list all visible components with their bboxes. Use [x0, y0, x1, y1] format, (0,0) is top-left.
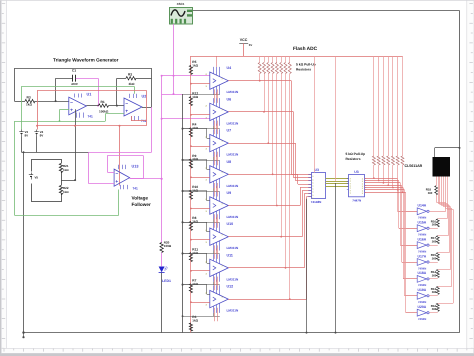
wire U4 ground pins	[183, 94, 220, 96]
svg-text:5V: 5V	[249, 43, 253, 47]
op-amp U1	[69, 97, 87, 115]
ladder tap node 8	[190, 301, 192, 303]
resistor R15 segment	[436, 253, 439, 261]
op-amp U13 voltage follower	[114, 169, 130, 186]
inverter U16A	[417, 242, 426, 249]
svg-text:U15A: U15A	[418, 221, 427, 225]
svg-text:5 kΩ Pull-Up: 5 kΩ Pull-Up	[346, 152, 366, 156]
wire U13 feedback loop	[130, 178, 144, 180]
wire VCC drop	[243, 43, 245, 56]
wire 7447 ground	[335, 183, 337, 333]
junction red-V4	[36, 125, 38, 127]
svg-text:360: 360	[432, 307, 437, 311]
wire green U13 ground	[118, 190, 120, 216]
svg-text:7447N: 7447N	[352, 198, 361, 202]
wire C1 left leg	[55, 78, 57, 101]
box V5 divider	[32, 160, 62, 202]
svg-text:U14A: U14A	[418, 204, 427, 208]
wire U9 minus input from bus	[183, 190, 207, 192]
svg-text:U1: U1	[87, 93, 92, 97]
wire TWG top feedback	[14, 68, 151, 70]
resistor R18 segment	[435, 186, 438, 195]
wire U8 ground pins	[183, 191, 220, 193]
svg-text:Follower: Follower	[132, 202, 151, 207]
ladder tap node 5	[190, 208, 192, 210]
svg-text:LM311N: LM311N	[227, 153, 239, 157]
svg-text:U4: U4	[227, 66, 232, 70]
wire U1 output row	[86, 105, 98, 107]
ladder tap node 1	[190, 83, 192, 85]
wire U11 plus input from ladder	[191, 270, 210, 272]
wire C1 right leg to U1 output	[76, 78, 98, 80]
ladder tap node 6	[190, 239, 192, 241]
svg-text:U16A: U16A	[418, 237, 427, 241]
svg-text:U6: U6	[227, 97, 232, 101]
wire U12 minus input from bus	[183, 284, 207, 286]
display CL5611AR	[433, 157, 451, 177]
wire green rail to op-amps	[22, 86, 135, 88]
comparator U8	[210, 166, 229, 183]
svg-text:7404N: 7404N	[418, 300, 426, 304]
wire U7 ground pins	[183, 160, 220, 162]
svg-text:U13: U13	[132, 165, 139, 169]
comparator output wires to encoder	[228, 80, 291, 82]
svg-text:Flash ADC: Flash ADC	[293, 46, 318, 52]
wire TWG left vertical	[14, 68, 16, 101]
svg-text:360: 360	[432, 223, 437, 227]
wire signal link to bus	[162, 94, 183, 96]
resistor R22	[59, 186, 63, 195]
wire U12 plus input from ladder	[191, 302, 210, 304]
junction bottom-left	[22, 331, 24, 333]
svg-text:74148N: 74148N	[311, 200, 322, 204]
svg-text:9V: 9V	[40, 133, 44, 137]
svg-text:Resistors: Resistors	[296, 68, 311, 72]
resistor R3	[25, 99, 35, 102]
svg-text:R1: R1	[101, 100, 105, 104]
svg-text:CL5611AR: CL5611AR	[405, 164, 423, 168]
wire VCC rail	[191, 56, 403, 58]
svg-text:360: 360	[428, 191, 433, 195]
wire source bottoms	[21, 137, 23, 153]
IC U3 74148N priority encoder	[312, 173, 326, 199]
wire segment 6 to display	[429, 295, 437, 297]
wire divider tap	[61, 180, 75, 182]
svg-text:U8: U8	[227, 160, 232, 164]
svg-text:7404N: 7404N	[418, 266, 426, 270]
svg-text:1kΩ: 1kΩ	[192, 95, 198, 99]
resistor R20	[160, 243, 163, 253]
svg-text:U9: U9	[227, 191, 232, 195]
comparator U11	[210, 259, 229, 276]
svg-text:Resistors: Resistors	[346, 157, 361, 161]
ladder tap node 3	[190, 145, 192, 147]
ladder tap node 2	[190, 114, 192, 116]
wire R2 right leg	[136, 78, 152, 80]
inverter U19A	[417, 292, 426, 299]
node R1-R2	[116, 105, 118, 107]
left ruler band	[1, 0, 6, 348]
svg-text:1kΩ: 1kΩ	[63, 190, 69, 194]
svg-text:VCC: VCC	[240, 38, 248, 42]
svg-text:1kΩ: 1kΩ	[63, 168, 69, 172]
comparator U4	[210, 72, 229, 89]
wire green V3 net vertical	[21, 86, 23, 129]
wire green drop to U2 top pin	[134, 86, 136, 94]
wire tap up to red divider row	[75, 109, 77, 180]
svg-text:U3: U3	[354, 170, 358, 174]
comparator U9	[210, 197, 229, 214]
resistor R12 segment	[436, 303, 439, 311]
svg-text:R2: R2	[128, 72, 132, 76]
svg-text:360: 360	[432, 256, 437, 260]
wire U9 ground pins	[183, 222, 220, 224]
bus input distribution vertical	[182, 94, 184, 333]
wire green branch to U1 plus input	[59, 110, 61, 122]
wire scope channel A drop	[173, 24, 175, 94]
wire decoder vcc column	[335, 56, 337, 181]
svg-text:7404N: 7404N	[418, 249, 426, 253]
svg-text:XSC1: XSC1	[177, 2, 185, 6]
svg-text:360: 360	[432, 273, 437, 277]
wire U10 plus input from ladder	[191, 239, 210, 241]
wire left vertical from sources to bottom	[23, 152, 25, 332]
svg-text:360: 360	[432, 290, 437, 294]
wire signal to U6 minus	[162, 118, 210, 120]
comparator U7	[210, 134, 229, 151]
top hairline	[0, 0, 474, 1]
wire segment 3 to display	[429, 245, 437, 247]
wire U13 output	[130, 178, 162, 180]
wire U9 plus input from ladder	[191, 208, 210, 210]
comparator U6	[210, 103, 229, 120]
svg-text:R3: R3	[27, 96, 31, 100]
svg-text:Triangle Waveform Generator: Triangle Waveform Generator	[53, 58, 119, 63]
node R3-C1-U1	[55, 100, 57, 102]
svg-text:741: 741	[133, 187, 139, 191]
svg-text:9V: 9V	[25, 133, 29, 137]
svg-text:1kΩ: 1kΩ	[26, 103, 32, 107]
resistor R13 segment	[436, 286, 439, 294]
svg-text:U20A: U20A	[418, 305, 427, 309]
svg-text:LM311N: LM311N	[227, 184, 239, 188]
svg-text:U3: U3	[315, 168, 319, 172]
wire red rail	[37, 90, 146, 92]
wire display vcc	[434, 148, 436, 157]
svg-text:7404N: 7404N	[418, 216, 426, 220]
svg-text:5 kΩ Pull-Up: 5 kΩ Pull-Up	[296, 63, 316, 67]
wire 74148 ground	[306, 199, 308, 333]
wire U11 minus input from bus	[183, 253, 207, 255]
svg-text:3kΩ: 3kΩ	[129, 82, 135, 86]
svg-text:100kΩ: 100kΩ	[99, 109, 109, 113]
source V5	[29, 172, 33, 184]
wire segment 4 to display	[429, 262, 437, 264]
svg-text:LED1: LED1	[162, 279, 171, 283]
wires encoder to decoder olive	[325, 178, 348, 180]
wire U4 plus input from ladder	[191, 83, 210, 85]
svg-text:Voltage: Voltage	[132, 196, 149, 201]
resistor R2	[126, 77, 136, 80]
svg-text:LM311N: LM311N	[227, 121, 239, 125]
svg-text:U12: U12	[227, 285, 234, 289]
svg-text:47nF: 47nF	[71, 82, 78, 86]
svg-text:LM311N: LM311N	[227, 277, 239, 281]
resistor R1	[99, 104, 109, 107]
inverter U20A	[417, 309, 426, 316]
IC U3 7447N decoder	[349, 175, 365, 197]
svg-text:LM311N: LM311N	[227, 90, 239, 94]
svg-text:1kΩ: 1kΩ	[192, 282, 198, 286]
wire green branch to lower rail	[14, 121, 16, 216]
svg-text:1kΩ: 1kΩ	[192, 251, 198, 255]
ladder tap node 7	[190, 270, 192, 272]
wire scope-to-right-edge top	[191, 10, 460, 12]
resistor R14 segment	[436, 270, 439, 278]
wire U10 ground pins	[183, 253, 220, 255]
wire U10 minus input from bus	[183, 222, 207, 224]
source V3	[21, 130, 23, 132]
wire LED to ground	[161, 273, 163, 333]
wire comparator vcc stubs	[216, 56, 218, 67]
svg-text:1kΩ: 1kΩ	[192, 220, 198, 224]
op-amp U2	[124, 98, 142, 116]
wire U8 plus input from ladder	[191, 177, 210, 179]
wire U6 ground pins	[183, 128, 220, 130]
svg-text:LM311N: LM311N	[227, 215, 239, 219]
wire U8 minus input from bus	[183, 159, 207, 161]
wire signal vertical	[161, 76, 163, 179]
svg-text:U19A: U19A	[418, 288, 427, 292]
svg-text:U18A: U18A	[418, 271, 427, 275]
resistor R21	[59, 164, 63, 173]
wire segment 7 to display	[429, 312, 437, 314]
wire U11 ground pins	[183, 284, 220, 286]
inverter U15A	[417, 225, 426, 232]
svg-text:1kΩ: 1kΩ	[192, 64, 198, 68]
wire U2 output	[142, 107, 152, 109]
wire encoder vcc drop	[314, 56, 316, 173]
svg-text:U2: U2	[142, 95, 147, 99]
wire signal to U4 minus	[162, 75, 210, 77]
pull-up resistor array 1	[259, 56, 261, 63]
wire bottom horizontal	[24, 332, 460, 334]
svg-text:LM311N: LM311N	[227, 309, 239, 313]
decoder left pin stubs	[347, 178, 349, 180]
wire green bottom rail	[15, 215, 119, 217]
wire U6 plus input from ladder	[191, 114, 210, 116]
svg-text:360: 360	[432, 240, 437, 244]
wire TWG right vertical	[151, 68, 153, 107]
svg-text:1kΩ: 1kΩ	[192, 319, 198, 323]
svg-text:C1: C1	[72, 68, 76, 72]
wire red V4 net vertical	[37, 90, 39, 129]
ladder vertical	[190, 56, 192, 333]
wire comparator supply chain red	[214, 89, 216, 103]
wire U12 ground pins	[183, 316, 220, 318]
svg-text:100Ω: 100Ω	[164, 244, 172, 248]
bottom ruler band	[1, 348, 473, 353]
svg-text:V5: V5	[35, 176, 39, 180]
wire segment 1 to display	[429, 211, 445, 213]
source V4	[36, 130, 38, 132]
right ruler band	[467, 0, 474, 348]
wire red drop to U2 bottom pin	[146, 90, 148, 125]
svg-text:LM311N: LM311N	[227, 246, 239, 250]
wire U13 input net from U2	[151, 107, 153, 152]
svg-text:U10: U10	[227, 222, 234, 226]
wire green lower branch	[15, 121, 106, 123]
resistor R16 segment	[436, 219, 439, 227]
resistor R17 segment	[436, 236, 439, 244]
wire right-edge vertical	[459, 11, 461, 333]
wire red divider row	[37, 125, 146, 127]
svg-text:741: 741	[88, 115, 94, 119]
oscilloscope XSC1	[170, 8, 193, 25]
wires decoder outputs staircase	[365, 178, 398, 180]
inverter U14A	[417, 208, 426, 215]
ground stub bottom-left	[23, 333, 25, 337]
svg-text:7404N: 7404N	[418, 283, 426, 287]
wire segment 2 to display	[429, 228, 437, 230]
capacitor C1	[72, 75, 74, 82]
LED1	[161, 253, 163, 267]
pull-up resistor array 2	[373, 56, 375, 156]
node C1-U1out	[97, 105, 99, 107]
wire U7 plus input from ladder	[191, 146, 210, 148]
wire red down to U13	[119, 126, 121, 186]
wire U7 minus input from bus	[183, 128, 207, 130]
svg-text:U17A: U17A	[418, 254, 427, 258]
svg-text:7404N: 7404N	[418, 233, 426, 237]
svg-text:7404N: 7404N	[418, 317, 426, 321]
svg-text:1kΩ: 1kΩ	[192, 126, 198, 130]
wire R3 row	[14, 101, 25, 103]
wire green step to U2 plus input	[105, 114, 107, 121]
node follower output	[161, 178, 163, 180]
comparator U12	[210, 290, 229, 307]
ladder tap node 4	[190, 176, 192, 178]
inverter U18A	[417, 276, 426, 283]
svg-text:U7: U7	[227, 129, 232, 133]
svg-text:U11: U11	[227, 253, 233, 257]
wire R2 left leg	[116, 78, 118, 105]
inverter U17A	[417, 259, 426, 266]
comparator U10	[210, 228, 229, 245]
wire segment 5 to display	[429, 278, 437, 280]
